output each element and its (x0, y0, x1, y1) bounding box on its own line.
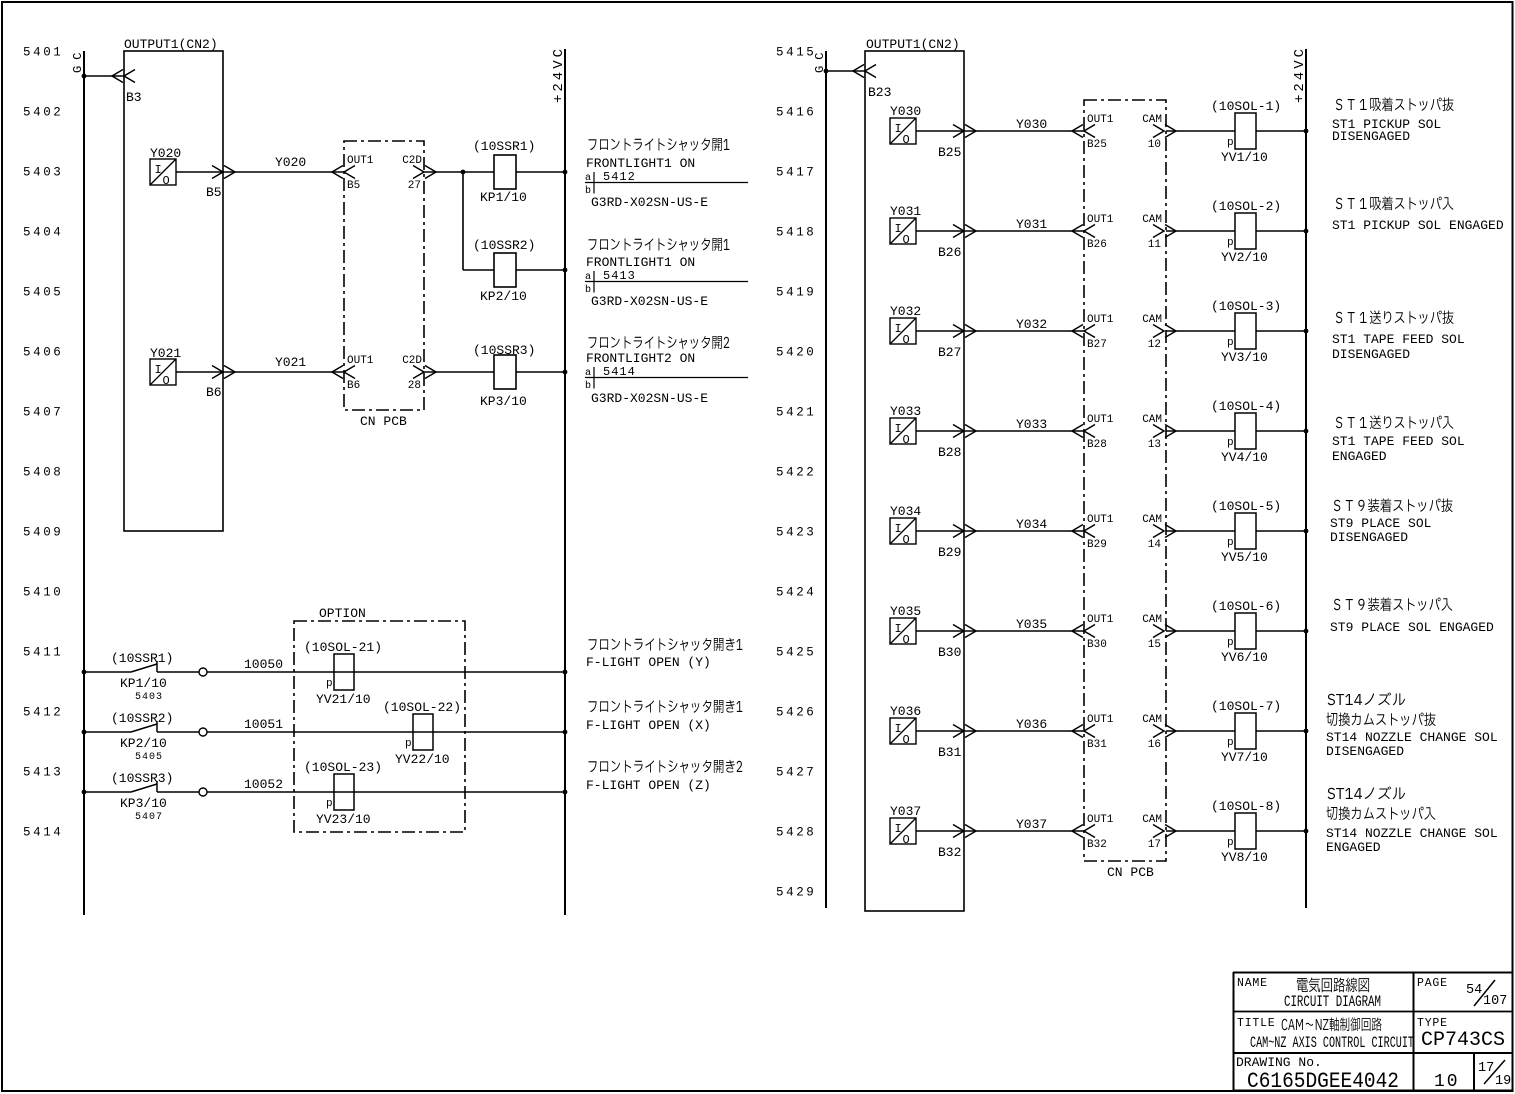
svg-text:OUT1: OUT1 (1087, 114, 1114, 126)
svg-text:CAM~NZ AXIS CONTROL CIRCUIT: CAM~NZ AXIS CONTROL CIRCUIT (1250, 1034, 1414, 1052)
svg-text:B30: B30 (938, 645, 961, 660)
svg-text:5417: 5417 (776, 166, 816, 180)
svg-text:CAM: CAM (1142, 314, 1162, 326)
svg-text:5412: 5412 (603, 170, 636, 184)
svg-text:(10SSR3): (10SSR3) (111, 771, 173, 786)
svg-text:Y021: Y021 (150, 346, 181, 361)
svg-text:Y033: Y033 (890, 404, 921, 419)
svg-text:G3RD-X02SN-US-E: G3RD-X02SN-US-E (591, 195, 708, 210)
svg-text:p: p (1227, 137, 1234, 149)
svg-text:CAM: CAM (1142, 214, 1162, 226)
svg-text:B6: B6 (206, 385, 222, 400)
svg-text:NAME: NAME (1237, 977, 1268, 990)
svg-text:5412: 5412 (23, 706, 63, 720)
svg-text:CAM: CAM (1142, 814, 1162, 826)
svg-text:(10SOL-2): (10SOL-2) (1211, 199, 1281, 214)
svg-text:p: p (1227, 337, 1234, 349)
svg-text:O: O (903, 433, 910, 447)
svg-text:YV2/10: YV2/10 (1221, 250, 1268, 265)
svg-text:DISENGAGED: DISENGAGED (1330, 530, 1408, 545)
svg-text:KP2/10: KP2/10 (480, 289, 527, 304)
svg-text:p: p (405, 738, 412, 750)
svg-text:5423: 5423 (776, 526, 816, 540)
svg-text:5426: 5426 (776, 706, 816, 720)
svg-text:19: 19 (1495, 1074, 1511, 1089)
svg-text:OUT1: OUT1 (1087, 314, 1114, 326)
svg-text:5424: 5424 (776, 586, 816, 600)
svg-text:B25: B25 (938, 145, 961, 160)
svg-text:(10SOL-3): (10SOL-3) (1211, 299, 1281, 314)
svg-text:OUTPUT1(CN2): OUTPUT1(CN2) (124, 37, 218, 52)
svg-text:KP2/10: KP2/10 (120, 736, 167, 751)
svg-text:p: p (1227, 237, 1234, 249)
svg-text:FRONTLIGHT2 ON: FRONTLIGHT2 ON (586, 351, 695, 366)
svg-text:F-LIGHT OPEN (Y): F-LIGHT OPEN (Y) (586, 655, 711, 670)
svg-text:O: O (903, 533, 910, 547)
svg-text:O: O (163, 174, 170, 188)
svg-text:a: a (585, 272, 591, 283)
svg-text:B28: B28 (938, 445, 961, 460)
svg-text:CIRCUIT DIAGRAM: CIRCUIT DIAGRAM (1284, 993, 1381, 1011)
svg-text:p: p (326, 798, 333, 810)
svg-text:B29: B29 (938, 545, 961, 560)
svg-text:p: p (1227, 637, 1234, 649)
svg-text:CN PCB: CN PCB (1107, 865, 1154, 880)
svg-text:YV4/10: YV4/10 (1221, 450, 1268, 465)
svg-text:(10SOL-4): (10SOL-4) (1211, 399, 1281, 414)
svg-text:5422: 5422 (776, 466, 816, 480)
svg-text:5427: 5427 (776, 766, 816, 780)
svg-text:Y032: Y032 (890, 304, 921, 319)
svg-text:I: I (895, 822, 902, 836)
svg-text:O: O (903, 833, 910, 847)
svg-text:5408: 5408 (23, 466, 63, 480)
svg-text:YV23/10: YV23/10 (316, 812, 371, 827)
svg-text:5409: 5409 (23, 526, 63, 540)
svg-text:107: 107 (1483, 994, 1507, 1009)
svg-text:OUT1: OUT1 (1087, 614, 1114, 626)
svg-text:Y020: Y020 (150, 146, 181, 161)
svg-text:Y021: Y021 (275, 355, 306, 370)
svg-text:10: 10 (1434, 1072, 1460, 1092)
svg-text:5402: 5402 (23, 106, 63, 120)
svg-text:(10SOL-22): (10SOL-22) (383, 700, 461, 715)
svg-text:O: O (163, 374, 170, 388)
svg-text:5401: 5401 (23, 46, 63, 60)
svg-text:5407: 5407 (23, 406, 63, 420)
svg-text:5413: 5413 (23, 766, 63, 780)
svg-text:+24VC: +24VC (551, 46, 567, 103)
svg-text:16: 16 (1148, 739, 1161, 751)
svg-text:YV6/10: YV6/10 (1221, 650, 1268, 665)
svg-text:DISENGAGED: DISENGAGED (1332, 129, 1410, 144)
svg-text:KP3/10: KP3/10 (480, 394, 527, 409)
svg-text:Y020: Y020 (275, 155, 306, 170)
svg-text:YV7/10: YV7/10 (1221, 750, 1268, 765)
svg-text:10050: 10050 (244, 657, 283, 672)
svg-text:O: O (903, 633, 910, 647)
svg-text:OUT1: OUT1 (1087, 514, 1114, 526)
svg-text:F-LIGHT OPEN (Z): F-LIGHT OPEN (Z) (586, 778, 711, 793)
svg-text:5418: 5418 (776, 226, 816, 240)
svg-text:11: 11 (1148, 239, 1162, 251)
svg-text:FRONTLIGHT1 ON: FRONTLIGHT1 ON (586, 156, 695, 171)
svg-text:OUT1: OUT1 (1087, 214, 1114, 226)
svg-text:Y031: Y031 (890, 204, 921, 219)
svg-text:ST1 TAPE FEED SOL: ST1 TAPE FEED SOL (1332, 332, 1465, 347)
svg-text:OPTION: OPTION (319, 606, 366, 621)
svg-text:Y032: Y032 (1016, 317, 1047, 332)
svg-text:17: 17 (1478, 1061, 1494, 1076)
svg-text:O: O (903, 233, 910, 247)
svg-text:5415: 5415 (776, 46, 816, 60)
svg-text:CAM: CAM (1142, 514, 1162, 526)
svg-text:B29: B29 (1087, 539, 1107, 551)
svg-text:CAM: CAM (1142, 114, 1162, 126)
svg-text:YV5/10: YV5/10 (1221, 550, 1268, 565)
svg-text:B26: B26 (938, 245, 961, 260)
svg-text:O: O (903, 333, 910, 347)
svg-text:B30: B30 (1087, 639, 1107, 651)
svg-text:(10SSR2): (10SSR2) (111, 711, 173, 726)
svg-text:KP1/10: KP1/10 (120, 676, 167, 691)
svg-text:G3RD-X02SN-US-E: G3RD-X02SN-US-E (591, 391, 708, 406)
svg-text:OUTPUT1(CN2): OUTPUT1(CN2) (866, 37, 960, 52)
svg-text:Y037: Y037 (1016, 817, 1047, 832)
svg-text:5405: 5405 (23, 286, 63, 300)
svg-text:54: 54 (1466, 983, 1482, 998)
svg-text:OUT1: OUT1 (1087, 414, 1114, 426)
svg-text:B5: B5 (206, 185, 222, 200)
svg-text:Y033: Y033 (1016, 417, 1047, 432)
svg-text:10052: 10052 (244, 777, 283, 792)
svg-text:p: p (1227, 537, 1234, 549)
svg-text:5425: 5425 (776, 646, 816, 660)
svg-text:5403: 5403 (23, 166, 63, 180)
svg-text:DRAWING No.: DRAWING No. (1236, 1055, 1322, 1070)
svg-text:I: I (895, 722, 902, 736)
svg-text:B31: B31 (1087, 739, 1107, 751)
svg-text:(10SOL-8): (10SOL-8) (1211, 799, 1281, 814)
svg-text:5414: 5414 (23, 826, 63, 840)
svg-text:(10SOL-5): (10SOL-5) (1211, 499, 1281, 514)
svg-text:YV1/10: YV1/10 (1221, 150, 1268, 165)
svg-text:28: 28 (408, 380, 421, 392)
svg-text:I: I (895, 222, 902, 236)
svg-text:Y036: Y036 (890, 704, 921, 719)
svg-text:ST1 TAPE FEED SOL: ST1 TAPE FEED SOL (1332, 434, 1465, 449)
svg-text:YV22/10: YV22/10 (395, 752, 450, 767)
svg-text:B32: B32 (1087, 839, 1107, 851)
svg-text:PAGE: PAGE (1417, 977, 1448, 990)
svg-text:CAM: CAM (1142, 614, 1162, 626)
svg-text:I: I (895, 622, 902, 636)
svg-text:5421: 5421 (776, 406, 816, 420)
svg-text:a: a (585, 173, 591, 184)
svg-text:G3RD-X02SN-US-E: G3RD-X02SN-US-E (591, 294, 708, 309)
svg-text:I: I (155, 363, 162, 377)
svg-text:(10SSR1): (10SSR1) (473, 139, 535, 154)
svg-text:10051: 10051 (244, 717, 283, 732)
svg-text:ST14 NOZZLE CHANGE SOL: ST14 NOZZLE CHANGE SOL (1326, 730, 1498, 745)
svg-text:I: I (895, 122, 902, 136)
svg-text:B5: B5 (347, 180, 360, 192)
svg-text:13: 13 (1148, 439, 1161, 451)
svg-text:KP1/10: KP1/10 (480, 190, 527, 205)
svg-text:12: 12 (1148, 339, 1161, 351)
svg-text:Y035: Y035 (1016, 617, 1047, 632)
svg-text:B28: B28 (1087, 439, 1107, 451)
svg-text:5416: 5416 (776, 106, 816, 120)
svg-text:5405: 5405 (135, 752, 163, 763)
svg-text:KP3/10: KP3/10 (120, 796, 167, 811)
svg-text:Y031: Y031 (1016, 217, 1047, 232)
svg-text:ST14 NOZZLE CHANGE SOL: ST14 NOZZLE CHANGE SOL (1326, 826, 1498, 841)
svg-text:DISENGAGED: DISENGAGED (1326, 744, 1404, 759)
svg-text:p: p (1227, 737, 1234, 749)
svg-text:(10SSR1): (10SSR1) (111, 651, 173, 666)
svg-text:F-LIGHT OPEN (X): F-LIGHT OPEN (X) (586, 718, 711, 733)
svg-text:5411: 5411 (23, 646, 63, 660)
svg-text:I: I (895, 322, 902, 336)
svg-text:B32: B32 (938, 845, 961, 860)
svg-text:B6: B6 (347, 380, 360, 392)
svg-text:B23: B23 (868, 85, 891, 100)
svg-text:YV3/10: YV3/10 (1221, 350, 1268, 365)
svg-text:B31: B31 (938, 745, 962, 760)
svg-text:5419: 5419 (776, 286, 816, 300)
svg-text:ST1 PICKUP SOL ENGAGED: ST1 PICKUP SOL ENGAGED (1332, 218, 1504, 233)
svg-text:5420: 5420 (776, 346, 816, 360)
svg-text:17: 17 (1148, 839, 1161, 851)
svg-text:5403: 5403 (135, 692, 163, 703)
svg-text:O: O (903, 733, 910, 747)
svg-text:OUT1: OUT1 (347, 355, 374, 367)
svg-text:27: 27 (408, 180, 421, 192)
svg-text:TITLE: TITLE (1237, 1017, 1276, 1030)
svg-text:+24VC: +24VC (1292, 46, 1308, 103)
svg-text:(10SOL-7): (10SOL-7) (1211, 699, 1281, 714)
svg-text:Y037: Y037 (890, 804, 921, 819)
svg-text:15: 15 (1148, 639, 1161, 651)
svg-text:(10SOL-21): (10SOL-21) (304, 640, 382, 655)
svg-text:I: I (895, 522, 902, 536)
svg-text:Y034: Y034 (1016, 517, 1047, 532)
svg-text:C2D: C2D (402, 155, 422, 167)
svg-text:5404: 5404 (23, 226, 63, 240)
svg-text:B26: B26 (1087, 239, 1107, 251)
svg-text:B3: B3 (126, 90, 142, 105)
svg-text:O: O (903, 133, 910, 147)
svg-text:(10SSR3): (10SSR3) (473, 343, 535, 358)
svg-text:OUT1: OUT1 (347, 155, 374, 167)
svg-text:CN PCB: CN PCB (360, 414, 407, 429)
svg-text:5406: 5406 (23, 346, 63, 360)
svg-text:5414: 5414 (603, 365, 636, 379)
svg-text:5410: 5410 (23, 586, 63, 600)
svg-text:(10SOL-1): (10SOL-1) (1211, 99, 1281, 114)
svg-text:CAM: CAM (1142, 714, 1162, 726)
svg-text:OUT1: OUT1 (1087, 814, 1114, 826)
svg-text:FRONTLIGHT1 ON: FRONTLIGHT1 ON (586, 255, 695, 270)
svg-text:Y035: Y035 (890, 604, 921, 619)
svg-text:5428: 5428 (776, 826, 816, 840)
svg-text:C2D: C2D (402, 355, 422, 367)
svg-text:Y030: Y030 (1016, 117, 1047, 132)
svg-text:ENGAGED: ENGAGED (1332, 449, 1387, 464)
svg-text:YV21/10: YV21/10 (316, 692, 371, 707)
svg-text:p: p (326, 678, 333, 690)
svg-text:I: I (895, 422, 902, 436)
svg-text:5429: 5429 (776, 886, 816, 900)
svg-text:YV8/10: YV8/10 (1221, 850, 1268, 865)
svg-text:B25: B25 (1087, 139, 1107, 151)
svg-text:C6165DGEE4042: C6165DGEE4042 (1247, 1069, 1399, 1094)
svg-text:p: p (1227, 837, 1234, 849)
svg-text:DISENGAGED: DISENGAGED (1332, 347, 1410, 362)
svg-text:10: 10 (1148, 139, 1161, 151)
svg-text:B27: B27 (1087, 339, 1107, 351)
svg-text:CAM: CAM (1142, 414, 1162, 426)
svg-text:14: 14 (1148, 539, 1162, 551)
svg-text:Y030: Y030 (890, 104, 921, 119)
svg-text:ST9 PLACE SOL ENGAGED: ST9 PLACE SOL ENGAGED (1330, 620, 1494, 635)
svg-text:I: I (155, 163, 162, 177)
svg-text:ST9 PLACE SOL: ST9 PLACE SOL (1330, 516, 1431, 531)
svg-text:5407: 5407 (135, 812, 163, 823)
svg-text:p: p (1227, 437, 1234, 449)
svg-text:(10SOL-6): (10SOL-6) (1211, 599, 1281, 614)
svg-text:B27: B27 (938, 345, 961, 360)
svg-text:CP743CS: CP743CS (1421, 1029, 1505, 1052)
svg-text:ENGAGED: ENGAGED (1326, 840, 1381, 855)
svg-text:(10SSR2): (10SSR2) (473, 238, 535, 253)
svg-text:Y034: Y034 (890, 504, 921, 519)
svg-text:a: a (585, 368, 591, 379)
svg-text:OUT1: OUT1 (1087, 714, 1114, 726)
svg-text:5413: 5413 (603, 269, 636, 283)
svg-text:(10SOL-23): (10SOL-23) (304, 760, 382, 775)
svg-text:Y036: Y036 (1016, 717, 1047, 732)
